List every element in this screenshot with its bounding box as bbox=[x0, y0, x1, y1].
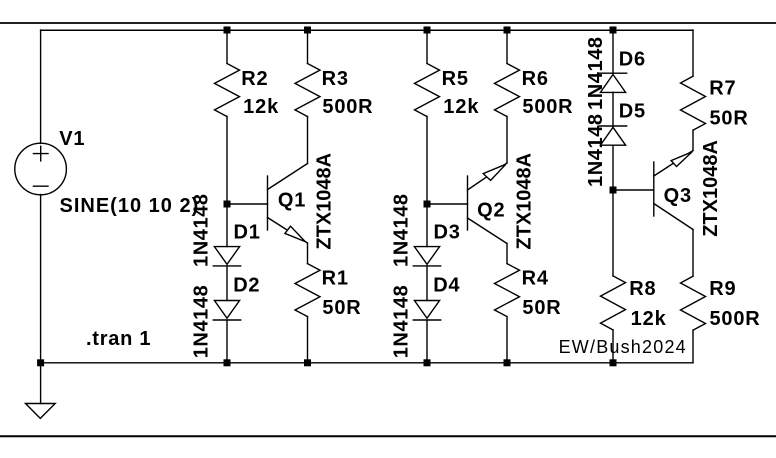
svg-text:1N4148: 1N4148 bbox=[190, 285, 212, 359]
node dot rail col4 bbox=[504, 27, 511, 34]
svg-text:ZTX1048A: ZTX1048A bbox=[514, 153, 536, 250]
resistor R2 bbox=[215, 64, 240, 117]
resistor R8 bbox=[601, 276, 626, 330]
wire D1-to-D2 bbox=[226, 266, 228, 301]
svg-text:500R: 500R bbox=[522, 96, 573, 118]
diode D3 bbox=[413, 247, 440, 266]
diode D5 bbox=[599, 126, 626, 145]
node dot Q2 base bbox=[424, 201, 431, 208]
svg-text:12k: 12k bbox=[243, 96, 279, 118]
wire col3 R5-to-D3 bbox=[426, 117, 428, 247]
node dot bottom col1 bbox=[224, 359, 231, 366]
svg-text:EW/Bush2024: EW/Bush2024 bbox=[559, 337, 687, 357]
wire R1-to-rail bbox=[307, 317, 309, 363]
wire V1 bottom bbox=[40, 195, 42, 363]
svg-text:ZTX1048A: ZTX1048A bbox=[700, 140, 722, 237]
wire D4-to-rail bbox=[426, 320, 428, 363]
resistor R9 bbox=[681, 276, 706, 330]
wire Q2 collector-to-R4 bbox=[506, 244, 508, 264]
node dot Q3 base bbox=[610, 187, 617, 194]
wire D3-to-D4 bbox=[426, 266, 428, 301]
diode D6 bbox=[599, 73, 626, 92]
svg-text:R6: R6 bbox=[522, 68, 549, 90]
wire D2-to-rail bbox=[226, 320, 228, 363]
transistor Q2 bbox=[468, 163, 508, 244]
svg-text:D6: D6 bbox=[619, 48, 646, 70]
resistor R5 bbox=[415, 64, 440, 117]
transistor Q1 bbox=[268, 164, 308, 244]
node dot Q1 base bbox=[224, 201, 231, 208]
svg-text:12k: 12k bbox=[631, 308, 667, 330]
wire col4 top bbox=[506, 30, 508, 64]
svg-text:R7: R7 bbox=[709, 78, 736, 100]
bottom border frame line bbox=[0, 435, 776, 437]
svg-text:V1: V1 bbox=[59, 128, 85, 150]
resistor R7 bbox=[681, 76, 706, 130]
svg-text:1N4148: 1N4148 bbox=[585, 36, 607, 110]
node dot rail col5 bbox=[610, 27, 617, 34]
wire right col top bbox=[692, 30, 694, 76]
svg-text:500R: 500R bbox=[322, 96, 373, 118]
svg-text:D2: D2 bbox=[233, 275, 260, 297]
resistor R4 bbox=[495, 264, 520, 317]
diode D4 bbox=[413, 301, 440, 321]
svg-text:SINE(10 10 2): SINE(10 10 2) bbox=[60, 195, 200, 217]
wire V1 top bbox=[40, 30, 42, 143]
svg-text:50R: 50R bbox=[322, 297, 361, 319]
node dot bottom col5 bbox=[610, 359, 617, 366]
wire col1 top bbox=[226, 30, 228, 64]
svg-text:D5: D5 bbox=[619, 101, 646, 123]
svg-text:Q3: Q3 bbox=[664, 185, 692, 207]
transistor Q3 bbox=[654, 151, 693, 230]
svg-text:50R: 50R bbox=[522, 297, 561, 319]
wire R9-to-rail bbox=[692, 330, 694, 362]
wire R7-to-emitter bbox=[692, 130, 694, 150]
wire R6-to-emitter bbox=[506, 117, 508, 164]
svg-text:R2: R2 bbox=[241, 68, 268, 90]
wire col1 R2-to-D1 bbox=[226, 117, 228, 247]
ground bbox=[26, 404, 56, 419]
svg-text:Q1: Q1 bbox=[278, 189, 306, 211]
svg-text:D4: D4 bbox=[433, 275, 460, 297]
diode D2 bbox=[213, 301, 240, 321]
svg-text:R1: R1 bbox=[322, 267, 349, 289]
wire Q3 collector-to-R9 bbox=[692, 230, 694, 277]
node dot bottom col2 bbox=[304, 359, 311, 366]
svg-text:1N4148: 1N4148 bbox=[390, 193, 412, 267]
svg-text:.tran 1: .tran 1 bbox=[86, 328, 151, 350]
resistor R1 bbox=[295, 264, 320, 317]
svg-text:1N4148: 1N4148 bbox=[585, 113, 607, 187]
node dot bottom col3 bbox=[424, 359, 431, 366]
wire D5-to-node bbox=[612, 145, 614, 276]
wire col3 top bbox=[426, 30, 428, 64]
svg-text:R3: R3 bbox=[322, 68, 349, 90]
wire R4-to-rail bbox=[506, 317, 508, 363]
wire R8-to-rail bbox=[612, 330, 614, 363]
node dot ground tap bbox=[37, 359, 44, 366]
wire R3-to-collector bbox=[307, 117, 309, 164]
wire Q2 base bbox=[427, 203, 468, 205]
wire col5 top bbox=[612, 30, 614, 73]
node dot rail col1 bbox=[224, 27, 231, 34]
wire Q1 base bbox=[227, 203, 268, 205]
resistor R6 bbox=[495, 64, 520, 117]
diode D1 bbox=[213, 247, 240, 266]
wire D6-to-D5 bbox=[612, 92, 614, 126]
svg-text:D1: D1 bbox=[234, 222, 261, 244]
svg-text:R9: R9 bbox=[709, 278, 736, 300]
voltage source V1 bbox=[15, 143, 67, 195]
node dot bottom col4 bbox=[504, 359, 511, 366]
svg-text:Q2: Q2 bbox=[477, 200, 505, 222]
svg-text:R4: R4 bbox=[522, 267, 549, 289]
top border frame line bbox=[0, 22, 776, 24]
node dot rail col2 bbox=[304, 27, 311, 34]
svg-text:12k: 12k bbox=[443, 96, 479, 118]
svg-text:D3: D3 bbox=[434, 222, 461, 244]
wire ground stem bbox=[40, 363, 42, 404]
wire bottom rail bbox=[41, 362, 693, 364]
wire col2 top bbox=[307, 30, 309, 64]
svg-text:1N4148: 1N4148 bbox=[190, 193, 212, 267]
wire Q1 emitter-to-R1 bbox=[307, 243, 309, 264]
svg-text:1N4148: 1N4148 bbox=[390, 285, 412, 359]
svg-text:ZTX1048A: ZTX1048A bbox=[314, 153, 336, 250]
wire top rail bbox=[41, 29, 693, 31]
svg-text:R8: R8 bbox=[629, 278, 656, 300]
svg-text:50R: 50R bbox=[710, 107, 749, 129]
svg-text:R5: R5 bbox=[442, 68, 469, 90]
wire Q3 base bbox=[613, 189, 654, 191]
node dot rail col3 bbox=[424, 27, 431, 34]
resistor R3 bbox=[295, 64, 320, 117]
svg-text:500R: 500R bbox=[710, 308, 761, 330]
